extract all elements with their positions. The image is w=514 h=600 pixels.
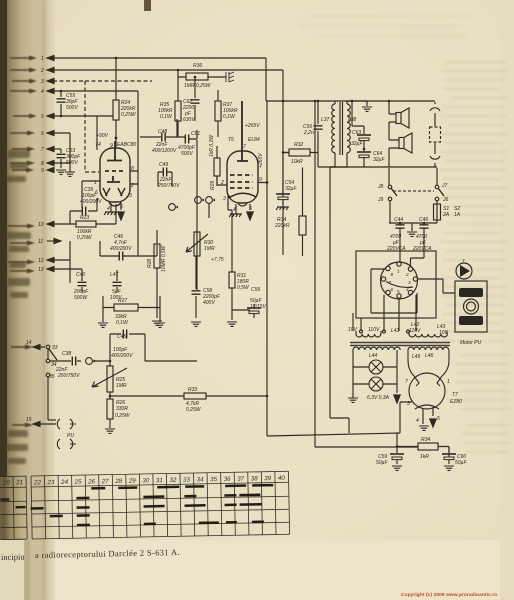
svg-text:630V: 630V xyxy=(183,117,195,123)
switch J8 xyxy=(377,168,397,196)
svg-text:J7: J7 xyxy=(441,183,448,189)
HT winding L45 L46 xyxy=(408,347,449,360)
svg-text:24: 24 xyxy=(60,479,69,486)
capacitor C61 xyxy=(177,130,200,157)
svg-text:4: 4 xyxy=(41,89,44,95)
svg-text:11: 11 xyxy=(38,239,43,245)
wire socket taps xyxy=(353,245,416,331)
jack J mid3 xyxy=(206,197,215,204)
node speaker top xyxy=(388,100,391,103)
voltage selector box outer xyxy=(356,251,436,318)
switch J7 xyxy=(435,168,447,196)
svg-text:R33: R33 xyxy=(188,387,197,393)
wire T5 pin2 grid xyxy=(217,176,227,185)
resistor R35 xyxy=(158,101,181,137)
svg-text:29: 29 xyxy=(128,478,137,485)
svg-text:40: 40 xyxy=(278,475,286,482)
svg-text:22: 22 xyxy=(33,479,42,486)
wire T7 pin3 xyxy=(400,402,412,433)
node mains xyxy=(314,100,317,103)
terminal 12 xyxy=(38,257,54,264)
jack J mid1 xyxy=(169,204,178,211)
svg-text:330R: 330R xyxy=(116,406,128,412)
node R25-R33 xyxy=(109,395,112,398)
svg-text:10MR 0,5W: 10MR 0,5W xyxy=(161,244,167,272)
svg-text:L45: L45 xyxy=(412,354,421,360)
svg-text:R27: R27 xyxy=(118,298,127,304)
wire speaker bottom xyxy=(330,148,437,167)
node t4-C55 xyxy=(60,90,63,93)
node L38 top xyxy=(351,100,354,103)
svg-text:50µF: 50µF xyxy=(455,460,467,466)
terminal 15 xyxy=(26,417,56,427)
wire T4 pin8 pin2 xyxy=(130,91,138,256)
table bars row3 xyxy=(31,504,262,508)
ground R27 left xyxy=(98,308,108,328)
node R33-corner xyxy=(266,395,269,398)
terminal 4 xyxy=(41,88,54,95)
svg-text:C44: C44 xyxy=(394,217,403,223)
wire B+ right edge xyxy=(266,58,367,101)
svg-text:15: 15 xyxy=(26,417,32,423)
capacitor C55 xyxy=(57,91,79,116)
svg-text:C61: C61 xyxy=(191,131,200,137)
wire bus2 xyxy=(47,69,283,71)
tube T5 EL84 xyxy=(220,101,262,213)
terminal 14 xyxy=(26,340,45,350)
speaker 2 xyxy=(389,133,412,153)
node C44 top xyxy=(399,222,402,225)
svg-text:1: 1 xyxy=(41,56,44,62)
svg-text:4: 4 xyxy=(107,206,110,212)
svg-text:EABC80: EABC80 xyxy=(117,142,136,148)
resistor R37 xyxy=(215,90,238,137)
voltage selector socket xyxy=(381,262,418,299)
capacitor C44 xyxy=(386,217,437,252)
resistor R26 xyxy=(107,399,131,428)
svg-text:250/750V: 250/750V xyxy=(57,373,80,379)
svg-text:7: 7 xyxy=(41,147,44,153)
svg-text:32: 32 xyxy=(169,477,177,484)
svg-text:30: 30 xyxy=(142,477,150,484)
switch J6 xyxy=(435,197,448,203)
svg-text:0,5W: 0,5W xyxy=(237,285,250,291)
arrow T5 pin5 xyxy=(247,204,253,220)
table bars row5 xyxy=(77,522,264,525)
switch J4 xyxy=(46,359,57,368)
svg-text:0,1W: 0,1W xyxy=(160,114,173,120)
svg-text:27: 27 xyxy=(101,478,110,485)
svg-text:31: 31 xyxy=(156,477,163,484)
heater winding L44 xyxy=(353,347,400,359)
wire speaker top xyxy=(367,101,435,114)
svg-text:2,2n: 2,2n xyxy=(303,130,314,136)
svg-text:20: 20 xyxy=(2,479,11,486)
ground L44 xyxy=(348,384,358,402)
node C63-C64 xyxy=(363,148,366,151)
output transformer L37 xyxy=(321,104,335,153)
capacitor C56 xyxy=(303,101,323,149)
svg-text:4: 4 xyxy=(406,287,409,292)
wire C63 top xyxy=(352,101,364,131)
svg-text:50µF: 50µF xyxy=(376,460,388,466)
svg-text:T7: T7 xyxy=(452,392,458,398)
svg-text:L46: L46 xyxy=(425,353,434,359)
svg-text:7: 7 xyxy=(389,280,392,285)
svg-text:14: 14 xyxy=(26,340,32,346)
svg-text:R34: R34 xyxy=(421,437,430,443)
dashed box oscillator xyxy=(85,81,152,172)
svg-text:+265V: +265V xyxy=(258,153,264,168)
tube T4 EABC80 xyxy=(94,141,136,212)
svg-text:10kR: 10kR xyxy=(291,159,303,165)
resistor R27 xyxy=(103,296,160,326)
capacitor C64 xyxy=(357,149,385,167)
svg-text:8: 8 xyxy=(41,161,44,167)
wire T4 pin5 cathode xyxy=(120,203,122,210)
svg-text:36: 36 xyxy=(224,476,232,483)
svg-text:T4: T4 xyxy=(95,142,101,148)
svg-text:220kR: 220kR xyxy=(274,223,290,229)
svg-text:2: 2 xyxy=(405,272,409,277)
svg-text:6: 6 xyxy=(391,287,394,292)
wire speaker vert xyxy=(388,122,390,140)
svg-text:1kR 0,2W: 1kR 0,2W xyxy=(209,134,215,157)
svg-text:12: 12 xyxy=(38,258,44,264)
transformer core xyxy=(340,102,343,155)
node bus out xyxy=(317,100,320,103)
jack PU input xyxy=(86,358,95,365)
svg-text:3: 3 xyxy=(41,79,44,85)
svg-text:4: 4 xyxy=(416,418,419,424)
svg-text:+265V: +265V xyxy=(245,123,260,129)
svg-text:110V: 110V xyxy=(409,328,421,334)
svg-text:35: 35 xyxy=(210,476,218,483)
capacitor C40 xyxy=(73,272,89,301)
wire L37 leads xyxy=(318,101,335,167)
node R36-C62 xyxy=(194,76,197,79)
svg-text:7: 7 xyxy=(405,379,408,385)
svg-text:R28: R28 xyxy=(147,259,153,268)
ground L38 top xyxy=(362,101,372,111)
svg-text:PU: PU xyxy=(67,433,74,439)
svg-text:incipiu: incipiu xyxy=(1,552,26,562)
svg-text:0,25W: 0,25W xyxy=(186,407,202,413)
voltage selector box inner wiring xyxy=(371,269,417,313)
wire R25 tap xyxy=(145,360,197,362)
capacitor C59 cathode xyxy=(232,287,267,318)
resistor R32 xyxy=(283,142,318,165)
svg-text:0,25W: 0,25W xyxy=(77,235,93,241)
potentiometer R30 xyxy=(186,232,215,256)
capacitor C63 xyxy=(351,130,371,149)
svg-text:110V: 110V xyxy=(368,327,380,333)
svg-text:500W: 500W xyxy=(74,295,88,301)
switch J9 xyxy=(377,197,392,223)
svg-text:5: 5 xyxy=(437,416,440,422)
terminal 9 xyxy=(41,167,54,174)
resistor R29 xyxy=(209,134,220,190)
capacitor C48 xyxy=(140,119,177,154)
svg-text:C48: C48 xyxy=(158,129,167,135)
svg-text:1MR: 1MR xyxy=(204,246,215,252)
terminal 6 xyxy=(41,130,54,137)
svg-text:R32: R32 xyxy=(294,142,303,148)
table bars row2 xyxy=(76,495,260,498)
svg-text:2: 2 xyxy=(40,68,44,74)
resistor R31 xyxy=(229,272,250,310)
svg-text:6,3V 0,3A: 6,3V 0,3A xyxy=(367,395,390,401)
capacitor C46 xyxy=(100,234,157,261)
fuse S1 xyxy=(434,201,461,223)
wire socket to motor xyxy=(418,279,455,293)
ground C58 xyxy=(191,322,201,326)
svg-text:32µF: 32µF xyxy=(285,186,297,192)
svg-text:1MR: 1MR xyxy=(116,383,127,389)
svg-text:L41: L41 xyxy=(391,328,400,334)
capacitor C49 xyxy=(157,162,180,189)
wire t10 junction xyxy=(69,211,71,224)
svg-text:10: 10 xyxy=(38,222,44,228)
potentiometer R25 xyxy=(92,361,127,399)
arrow heater xyxy=(394,395,400,403)
svg-text:C38: C38 xyxy=(62,351,71,357)
wire center vert xyxy=(197,140,209,290)
svg-text:R36: R36 xyxy=(193,63,202,69)
wire R32 left xyxy=(283,70,289,255)
terminal 5 xyxy=(41,113,54,120)
capacitor C59b xyxy=(376,433,404,466)
captions xyxy=(1,547,497,598)
svg-text:1A: 1A xyxy=(454,212,461,218)
svg-text:400V: 400V xyxy=(203,300,215,306)
svg-text:J9: J9 xyxy=(377,197,384,203)
wire bottom bus2 xyxy=(315,446,418,448)
resistor R36 xyxy=(178,63,226,89)
svg-text:7: 7 xyxy=(243,144,246,150)
svg-text:400/1200V: 400/1200V xyxy=(152,148,177,154)
svg-text:400/200V: 400/200V xyxy=(80,199,102,205)
terminal 3 xyxy=(41,78,54,85)
wire t10 xyxy=(47,223,76,225)
table header numbers xyxy=(33,475,285,487)
svg-text:8: 8 xyxy=(391,272,394,277)
pilot lamp 1 xyxy=(353,350,383,374)
jack J mid2 xyxy=(195,197,204,204)
label L42 110V xyxy=(409,322,421,334)
svg-text:5: 5 xyxy=(397,289,400,294)
speaker 1 xyxy=(389,108,409,128)
capacitor C60 xyxy=(442,447,467,467)
capacitor C38 xyxy=(50,351,81,379)
ground T4 pin4 xyxy=(104,203,117,215)
wire t6 xyxy=(47,133,70,163)
svg-text:500V: 500V xyxy=(181,151,193,157)
node +90V xyxy=(115,137,118,140)
wire bus1 xyxy=(47,57,266,59)
ground t6 xyxy=(65,163,75,176)
wire J5 vert xyxy=(47,349,49,420)
svg-text:1MR 0,25W: 1MR 0,25W xyxy=(184,83,212,89)
svg-text:0,25W: 0,25W xyxy=(115,413,131,419)
svg-text:L37: L37 xyxy=(321,117,330,123)
power transformer core xyxy=(350,343,450,346)
svg-text:C45: C45 xyxy=(117,334,126,340)
terminal 11 xyxy=(38,238,61,245)
svg-text:21: 21 xyxy=(15,479,23,486)
svg-text:39: 39 xyxy=(264,475,272,482)
jack phones upper xyxy=(57,419,76,429)
power transformer primary xyxy=(356,331,447,337)
wire t7 xyxy=(47,148,61,150)
svg-text:38: 38 xyxy=(251,475,259,482)
wire bottom bus1 xyxy=(267,433,400,436)
svg-text:32µF: 32µF xyxy=(373,157,385,163)
wire T5 pin3 cathode xyxy=(228,196,232,272)
svg-text:12/15V: 12/15V xyxy=(250,304,267,310)
motor PU box xyxy=(455,281,487,346)
capacitor L47 5uF xyxy=(110,270,122,301)
svg-text:+7,75: +7,75 xyxy=(211,257,224,263)
svg-text:35: 35 xyxy=(49,374,55,380)
output transformer L38 xyxy=(347,104,357,153)
capacitor C54 xyxy=(276,156,297,204)
node bus 283 xyxy=(282,100,285,103)
node t5-C55 xyxy=(60,115,63,118)
wire lamps right xyxy=(383,350,397,393)
wire t13 xyxy=(47,269,82,278)
capacitor C62 xyxy=(182,77,200,123)
svg-text:T5: T5 xyxy=(228,137,234,143)
ground C59b xyxy=(392,466,402,470)
pilot lamp 2 xyxy=(353,367,383,391)
svg-text:9: 9 xyxy=(110,143,113,149)
svg-text:0,1W: 0,1W xyxy=(223,114,236,120)
svg-text:R29: R29 xyxy=(210,181,216,190)
ground C44-C46 xyxy=(407,223,417,236)
arrow T7 pin5 xyxy=(430,407,436,427)
svg-text:2A: 2A xyxy=(442,212,450,218)
capacitor C45 xyxy=(110,330,145,362)
svg-text:0,25W: 0,25W xyxy=(121,112,137,118)
svg-text:3: 3 xyxy=(408,280,411,285)
svg-text:EZ80: EZ80 xyxy=(450,399,462,405)
wire T4 grid left xyxy=(82,181,100,208)
table bars row1 xyxy=(91,485,273,488)
node bus1-R24 xyxy=(115,57,118,60)
capacitor C58 xyxy=(192,256,221,318)
wire T5 pin9 xyxy=(258,101,267,396)
wire R35 top xyxy=(177,70,179,101)
svg-text:5: 5 xyxy=(41,114,44,120)
capacitor C46b xyxy=(411,217,433,266)
terminal 1 xyxy=(41,55,54,62)
svg-text:Motor PU: Motor PU xyxy=(460,340,482,346)
svg-text:+90V: +90V xyxy=(96,133,108,139)
pickup cartridge xyxy=(456,258,472,279)
wire L38 leads xyxy=(330,101,367,167)
svg-text:0,1W: 0,1W xyxy=(116,320,129,326)
ground C54 xyxy=(276,207,289,210)
table xyxy=(0,471,290,539)
ground R27 right xyxy=(155,308,165,328)
node R34-C59 xyxy=(396,445,399,448)
node R25 top xyxy=(109,360,112,363)
ground C60 xyxy=(444,466,454,470)
svg-text:C59: C59 xyxy=(251,287,260,293)
svg-text:400/200V: 400/200V xyxy=(111,353,133,359)
wire mains vert xyxy=(314,101,316,447)
svg-text:400/200V: 400/200V xyxy=(110,246,132,252)
svg-text:EL84: EL84 xyxy=(248,137,260,143)
svg-text:R23: R23 xyxy=(80,215,89,221)
jack phones lower xyxy=(57,439,76,449)
svg-text:26: 26 xyxy=(87,478,96,485)
table grid xyxy=(31,471,290,539)
svg-text:33: 33 xyxy=(52,345,58,351)
wire t5 xyxy=(47,116,113,150)
switch coupling dashed xyxy=(393,190,434,192)
svg-text:C49: C49 xyxy=(159,162,168,168)
book gutter left edge xyxy=(0,0,55,600)
wire t4 xyxy=(47,90,138,92)
resistor R34 xyxy=(397,437,449,460)
svg-text:34: 34 xyxy=(197,476,205,483)
svg-text:1kR: 1kR xyxy=(420,454,429,460)
capacitor C39 xyxy=(70,187,102,216)
switch J3 xyxy=(46,345,58,360)
svg-text:C63: C63 xyxy=(352,130,361,136)
switch J5 xyxy=(46,373,55,380)
resistor R34b 220k xyxy=(274,168,306,257)
svg-text:250/750V: 250/750V xyxy=(157,183,180,189)
svg-text:500V: 500V xyxy=(66,160,78,166)
terminal 13 xyxy=(38,266,54,273)
terminal 10 xyxy=(38,221,54,228)
svg-text:J8: J8 xyxy=(377,184,384,190)
resistor R28 xyxy=(147,230,167,318)
table bars row4 xyxy=(50,514,90,517)
wire J5 to jack xyxy=(48,419,56,421)
svg-text:1: 1 xyxy=(447,379,450,385)
external speaker jack xyxy=(430,102,441,167)
svg-text:Copyright (c) 2009 www.proradi: Copyright (c) 2009 www.proradioantic.ro xyxy=(401,592,497,598)
tap circles xyxy=(360,330,410,333)
wire t12 xyxy=(47,241,70,283)
ground T5 pin4 xyxy=(229,204,242,217)
wire aux vert xyxy=(330,167,349,433)
svg-text:J6: J6 xyxy=(442,197,449,203)
svg-text:23: 23 xyxy=(46,479,55,486)
ground R31 xyxy=(227,310,237,326)
svg-text:9: 9 xyxy=(41,168,44,174)
ground T7 pin4 xyxy=(419,408,429,430)
tube T7 EZ80 xyxy=(405,350,462,424)
svg-text:C40: C40 xyxy=(76,272,85,278)
ground C53 xyxy=(56,170,66,174)
wire t8 xyxy=(47,162,70,164)
node T5 pin9 xyxy=(266,181,269,184)
svg-text:500V: 500V xyxy=(66,105,78,111)
svg-text:28: 28 xyxy=(114,478,123,485)
wire t3 dashed xyxy=(53,80,85,82)
node R32 xyxy=(282,151,285,154)
svg-text:L47: L47 xyxy=(110,272,119,278)
svg-text:37: 37 xyxy=(237,476,245,483)
arrow T4 cathode xyxy=(118,212,124,220)
terminal 2 xyxy=(40,67,54,74)
resistor R24 xyxy=(113,58,137,147)
